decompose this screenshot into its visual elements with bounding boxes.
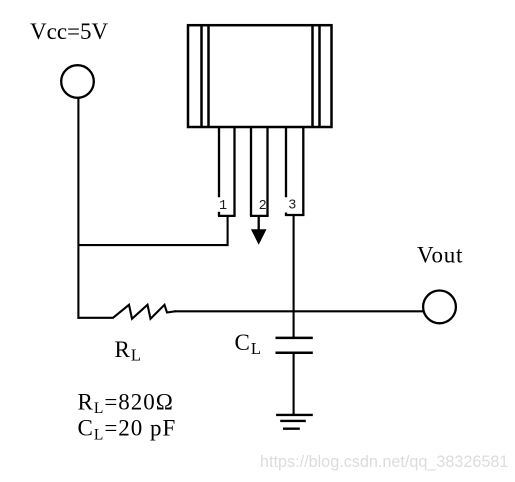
pin 3 outline [285, 127, 304, 216]
wire output horizontal [175, 310, 423, 312]
pin 2 outline [250, 127, 269, 216]
svg-text:RL=820Ω: RL=820Ω [78, 389, 174, 417]
pin 1 outline [218, 127, 236, 216]
wire pin1 to Vcc rail [78, 216, 227, 245]
svg-text:2: 2 [259, 199, 267, 214]
svg-text:CL=20 pF: CL=20 pF [78, 416, 177, 444]
terminal Vout [423, 291, 456, 324]
wire Vcc vertical [77, 99, 79, 319]
svg-text:https://blog.csdn.net/qq_38326: https://blog.csdn.net/qq_38326581 [260, 453, 508, 471]
package tab line left A [200, 25, 203, 127]
svg-text:3: 3 [288, 199, 296, 214]
svg-text:Vout: Vout [417, 243, 463, 268]
sensor package U1 body [188, 25, 332, 127]
capacitor C1 top plate [276, 337, 313, 340]
ground symbol [276, 415, 313, 429]
svg-text:RL: RL [115, 337, 142, 365]
svg-text:CL: CL [235, 330, 262, 358]
package tab line right A [311, 25, 314, 127]
svg-text:Vcc=5V: Vcc=5V [30, 19, 108, 44]
wire pin3 vertical to capacitor [293, 216, 295, 338]
package tab line left B [207, 25, 210, 127]
package tab line right B [318, 25, 321, 127]
capacitor C1 bottom plate [276, 352, 313, 355]
wire pin2 stub [258, 216, 260, 231]
arrow ground marker pin2 [251, 229, 267, 245]
svg-text:1: 1 [219, 199, 227, 214]
resistor R1 zigzag [77, 305, 176, 319]
terminal Vcc [61, 65, 94, 98]
wire capacitor to ground [293, 353, 295, 415]
